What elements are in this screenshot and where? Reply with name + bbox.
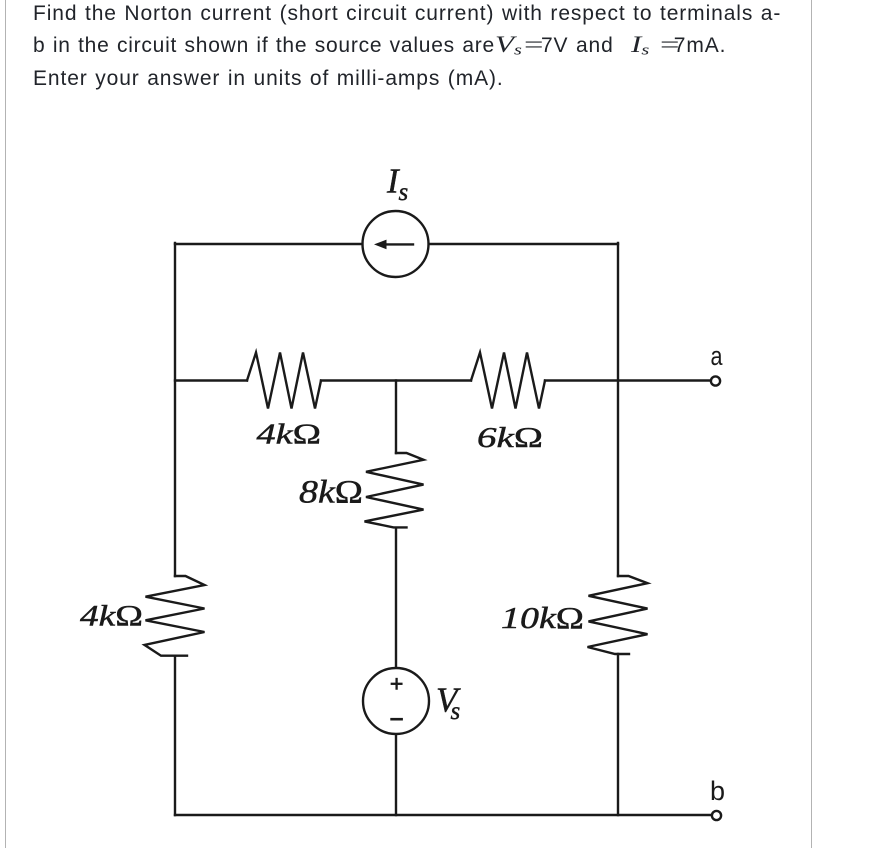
wire middle horizontal right	[545, 379, 711, 381]
wire middle vertical lower	[395, 734, 397, 815]
wire bottom rail	[175, 814, 711, 816]
svg-text:4kΩ: 4kΩ	[80, 600, 143, 633]
current source Is	[363, 211, 429, 277]
svg-text:b: b	[710, 776, 725, 806]
wire middle vertical upper	[395, 381, 397, 454]
svg-text:s: s	[451, 698, 461, 725]
wire middle vertical mid	[395, 528, 397, 668]
resistor R 4k vertical left	[145, 576, 205, 656]
wire left rail upper	[174, 243, 176, 576]
wire left rail lower	[174, 656, 176, 815]
resistor R 6k horizontal	[471, 353, 545, 409]
voltage source Vs	[363, 668, 429, 734]
wire middle horizontal left	[175, 379, 247, 381]
resistor R 4k horizontal	[247, 353, 321, 409]
label Is	[386, 162, 408, 207]
svg-text:s: s	[399, 179, 409, 206]
wire middle horizontal center	[321, 379, 471, 381]
svg-text:a: a	[711, 341, 724, 371]
wire right rail lower	[617, 654, 619, 815]
question text	[33, 0, 823, 95]
svg-text:6kΩ: 6kΩ	[477, 422, 543, 454]
resistor R 10k vertical right	[588, 576, 648, 654]
wire top rail	[175, 243, 618, 245]
left page border	[5, 0, 6, 848]
terminal b	[712, 811, 721, 820]
label Vs	[436, 681, 461, 726]
right page border	[811, 0, 812, 848]
terminal a	[711, 376, 720, 385]
svg-text:10kΩ: 10kΩ	[501, 600, 584, 635]
wire right rail upper	[617, 243, 619, 576]
resistor R 8k vertical middle	[365, 453, 424, 527]
svg-text:4kΩ: 4kΩ	[257, 419, 322, 451]
svg-text:8kΩ: 8kΩ	[299, 475, 363, 511]
